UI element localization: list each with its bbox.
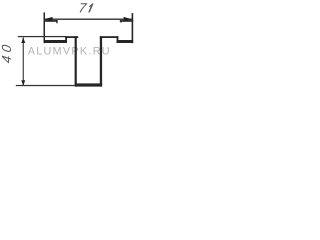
- digit 1 of label 71 (custom glyph): [88, 4, 93, 13]
- profile channel right wall: [100, 36, 102, 86]
- svg-text:ALUMVPK.RU: ALUMVPK.RU: [28, 45, 111, 57]
- dimension line 71: [44, 19, 132, 20]
- profile step left: [65, 36, 67, 43]
- profile channel bottom: [75, 83, 103, 86]
- dimension line 40: [23, 38, 24, 85]
- arrowhead bottom of dim 40: [21, 80, 25, 86]
- profile top-left lip: [44, 20, 58, 22]
- arrowhead left of dim 71: [44, 17, 53, 22]
- profile ledge left: [65, 36, 78, 38]
- extension line + profile left wall: [44, 12, 46, 43]
- arrowhead top of dim 40: [21, 37, 25, 43]
- profile top-right lip: [120, 20, 133, 22]
- profile bottom flange right: [117, 40, 134, 43]
- profile top-left lip end tick: [56, 20, 57, 23]
- profile bottom flange left: [44, 40, 67, 43]
- profile ledge right: [100, 36, 119, 38]
- profile step right: [117, 36, 119, 43]
- background: [0, 0, 144, 102]
- arrowhead right of dim 71: [124, 17, 133, 22]
- profile channel left wall: [75, 36, 77, 86]
- extension line top of dim 40: [18, 36, 66, 37]
- extension line bottom of dim 40: [16, 85, 75, 86]
- svg-text:40: 40: [0, 40, 14, 64]
- profile top-right lip start tick: [120, 20, 121, 22]
- extension line + profile right wall: [132, 13, 134, 43]
